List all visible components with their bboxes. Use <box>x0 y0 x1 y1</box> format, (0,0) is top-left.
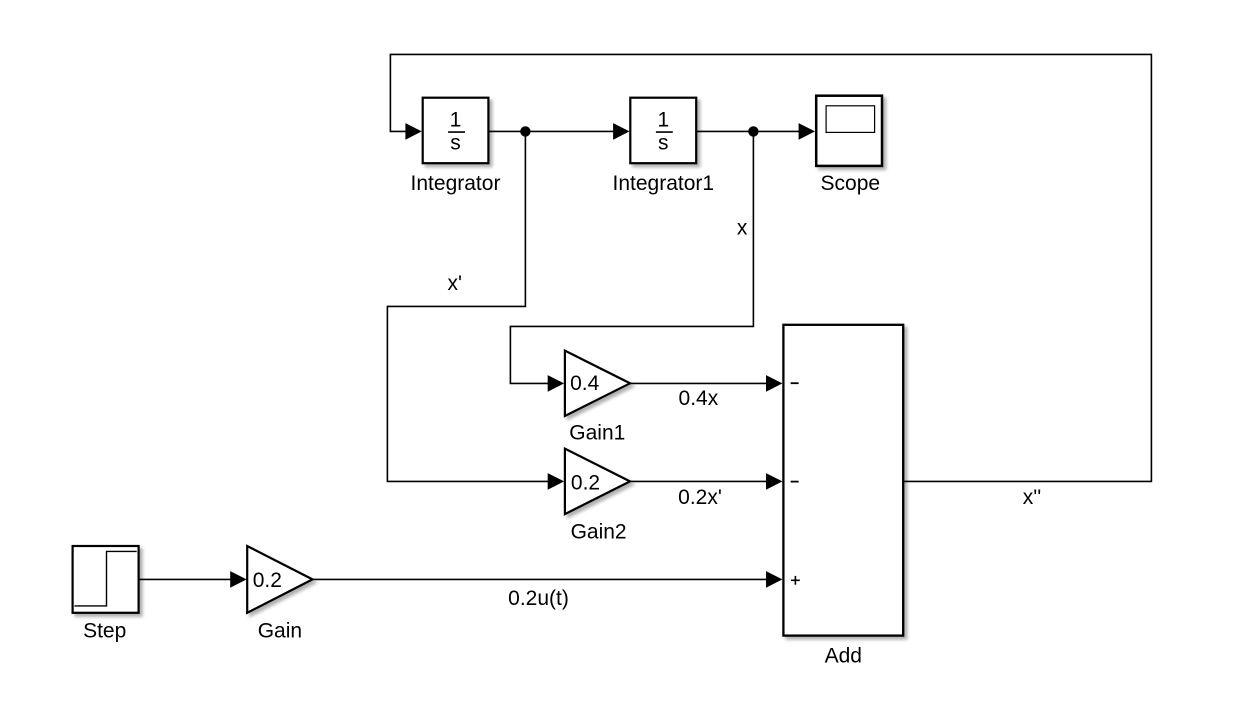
wire: x branch down, left, down to Gain1 input <box>510 131 753 383</box>
step waveform icon <box>74 551 136 606</box>
svg-text:x'': x'' <box>1023 486 1042 509</box>
block Step <box>73 546 139 613</box>
arrowhead into Integrator1 <box>613 123 629 140</box>
wire: Gain2 output to Add input 2 <box>630 480 769 482</box>
svg-text:0.2: 0.2 <box>253 569 282 592</box>
block Gain <box>247 546 312 613</box>
svg-text:Integrator: Integrator <box>411 172 501 195</box>
block Gain1 <box>565 351 630 416</box>
arrowhead into Add port 3 <box>766 571 782 588</box>
arrowhead into Add port 2 <box>766 473 782 490</box>
wire: Integrator to Integrator1 <box>488 130 614 132</box>
arrowhead into Gain1 <box>548 375 564 392</box>
svg-text:0.2u(t): 0.2u(t) <box>508 587 569 610</box>
svg-text:Scope: Scope <box>821 172 881 195</box>
svg-text:s: s <box>450 132 461 155</box>
block Integrator <box>423 98 489 164</box>
svg-text:1: 1 <box>450 109 462 132</box>
svg-text:Step: Step <box>83 619 126 642</box>
block Integrator1 <box>630 98 696 164</box>
svg-text:0.4x: 0.4x <box>679 387 719 410</box>
Add port sign plus <box>791 579 800 581</box>
svg-text:Gain: Gain <box>258 619 302 642</box>
wire: Gain output to Add input 3 <box>313 578 769 580</box>
svg-text:s: s <box>658 132 669 155</box>
svg-text:x': x' <box>447 272 462 295</box>
svg-text:Integrator1: Integrator1 <box>613 172 715 195</box>
svg-text:Gain1: Gain1 <box>569 422 625 445</box>
arrowhead into Scope <box>799 123 815 140</box>
block Add <box>783 325 903 636</box>
svg-text:x: x <box>737 217 748 240</box>
wire: x' branch down, left, down to Gain2 input <box>387 131 549 481</box>
node: junction dot (x' tap) <box>520 126 530 136</box>
svg-text:0.2: 0.2 <box>571 471 600 494</box>
svg-text:Gain2: Gain2 <box>571 521 627 544</box>
block Scope <box>816 96 882 166</box>
svg-text:Add: Add <box>825 645 862 668</box>
arrowhead into Gain <box>230 571 246 588</box>
wire: feedback loop from Add output right, up, left, down into Integrator <box>390 54 1151 481</box>
arrowhead into Gain2 <box>548 473 564 490</box>
svg-text:0.2x': 0.2x' <box>678 486 722 509</box>
wire: Integrator1 to Scope <box>697 130 801 132</box>
Add port sign minus 1 <box>791 382 799 384</box>
svg-text:1: 1 <box>657 109 669 132</box>
block Gain2 <box>565 449 630 514</box>
arrowhead into Integrator <box>405 123 421 140</box>
wire: Gain1 output to Add input 1 <box>630 382 769 384</box>
Add port sign minus 2 <box>791 481 799 483</box>
arrowhead into Add port 1 <box>766 375 782 392</box>
node: junction dot (x tap) <box>748 126 758 136</box>
svg-text:0.4: 0.4 <box>570 372 600 395</box>
wire: Step output to Gain input <box>139 578 232 580</box>
